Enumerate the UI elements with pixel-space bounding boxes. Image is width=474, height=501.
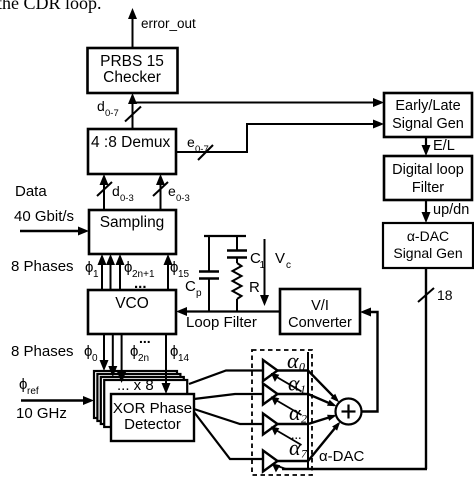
svg-text:up/dn: up/dn	[433, 202, 469, 218]
node alpha0 label	[287, 348, 305, 374]
svg-text:the CDR loop.: the CDR loop.	[0, 0, 102, 13]
wire DAC internal bus	[307, 352, 309, 469]
svg-text:0-7: 0-7	[105, 108, 119, 119]
wire summer to V/I Converter	[360, 308, 378, 412]
node phi0 label	[84, 343, 98, 364]
block PRBS 15 Checker	[88, 48, 178, 93]
wire phase a (VCO to Sampling)	[106, 254, 115, 290]
wire XOR out 4	[194, 412, 263, 459]
capacitor Cp	[199, 236, 219, 312]
node phi_ref label	[19, 376, 39, 397]
svg-text:0: 0	[92, 353, 98, 364]
svg-text:Filter: Filter	[412, 180, 444, 196]
svg-text:2n: 2n	[138, 353, 149, 364]
svg-text:α: α	[289, 435, 301, 460]
wire amp1 to summer	[277, 394, 337, 406]
node d0-7 label	[97, 98, 119, 119]
block Sampling	[89, 210, 176, 254]
block Early/Late Signal Gen	[384, 93, 472, 137]
wire amp0 to summer	[277, 371, 339, 403]
wire phase phi15 (VCO to Sampling)	[164, 254, 173, 290]
svg-text:Early/Late: Early/Late	[395, 98, 460, 114]
wire phase b (VCO to Sampling)	[116, 254, 125, 290]
block a-DAC Signal Gen	[383, 223, 473, 268]
svg-text:Converter: Converter	[288, 315, 352, 331]
amplifier alpha2	[263, 414, 302, 446]
block 4:8 Demux	[88, 129, 176, 174]
svg-text:Digital loop: Digital loop	[392, 162, 464, 178]
node phi1 label	[85, 259, 99, 280]
svg-text:α-DAC: α-DAC	[319, 448, 365, 465]
svg-text:E/L: E/L	[433, 138, 455, 154]
svg-text:α: α	[288, 371, 300, 396]
node e0-3 label	[168, 183, 190, 204]
wire Data input arrow	[20, 227, 89, 236]
wire e0-3 (Sampling to Demux)	[153, 174, 168, 210]
svg-text:8 Phases: 8 Phases	[11, 258, 74, 275]
svg-text:14: 14	[178, 353, 190, 364]
svg-text:8 Phases: 8 Phases	[11, 343, 74, 360]
svg-text:d: d	[112, 183, 120, 199]
node Vc label	[275, 250, 291, 271]
amplifier alpha1	[263, 384, 302, 416]
svg-text:0-3: 0-3	[120, 193, 134, 204]
wire loop filter main line (V/I to VCO)	[176, 307, 280, 316]
wire phi_ref input arrow	[21, 396, 94, 405]
svg-text:d: d	[97, 98, 105, 114]
block XOR stack back layers	[94, 371, 187, 427]
node phi2n label	[130, 330, 151, 364]
svg-text:7: 7	[301, 447, 308, 461]
svg-text:1: 1	[300, 382, 306, 396]
node phi14 label	[170, 343, 190, 364]
node d0-3 label	[112, 183, 134, 204]
svg-text:18: 18	[437, 287, 453, 303]
node alpha7 label	[289, 435, 308, 461]
svg-text:α-DAC: α-DAC	[407, 228, 449, 244]
block alpha-DAC dashed box	[252, 350, 312, 475]
wire e0-7 (Demux right to Early/Late)	[176, 120, 384, 161]
svg-text:4 :8 Demux: 4 :8 Demux	[91, 134, 171, 151]
amplifier alpha0	[263, 360, 302, 392]
wire up/dn (Digital loop Filter to a-DAC Signal Gen)	[422, 200, 431, 223]
wire 18-bit bus (a-DAC Signal Gen down and left to DAC)	[282, 268, 434, 469]
capacitor C1	[227, 236, 247, 263]
wire XOR out 3	[194, 409, 263, 424]
svg-text:α: α	[289, 400, 301, 425]
svg-text:e: e	[187, 134, 195, 150]
svg-text:0: 0	[299, 360, 305, 374]
wire XOR out 1	[189, 371, 263, 385]
wire phase phi0 (VCO to XOR stack)	[100, 334, 109, 371]
svg-text:c: c	[286, 260, 291, 271]
svg-text:Signal Gen: Signal Gen	[393, 245, 462, 261]
wire amp7 to summer	[277, 422, 340, 461]
svg-text:0-3: 0-3	[176, 193, 190, 204]
node phi2n+1 label	[124, 259, 155, 280]
amplifier alpha7	[263, 451, 286, 473]
svg-text:0-7: 0-7	[195, 144, 209, 155]
wire phase d (VCO to XOR stack)	[117, 334, 126, 383]
summer	[336, 399, 362, 425]
block Digital loop Filter	[384, 156, 472, 200]
wire Vc arrow	[260, 239, 269, 306]
svg-text:Loop Filter: Loop Filter	[186, 314, 257, 331]
wire E/L (Early/Late to Digital loop Filter)	[422, 137, 431, 156]
wire loop filter top rail	[204, 235, 246, 237]
svg-text:ref: ref	[27, 386, 39, 397]
svg-text:2: 2	[301, 412, 307, 426]
svg-text:40 Gbit/s: 40 Gbit/s	[14, 208, 74, 225]
wire d0-7 (Demux top to PRBS bottom)	[125, 93, 141, 129]
block XOR Phase Detector	[111, 394, 194, 441]
svg-text:Data: Data	[15, 183, 47, 200]
svg-text:Signal Gen: Signal Gen	[392, 116, 464, 132]
svg-text:VCO: VCO	[115, 295, 149, 312]
svg-text:PRBS 15: PRBS 15	[100, 53, 164, 70]
svg-text:10 GHz: 10 GHz	[16, 405, 67, 422]
svg-text:α: α	[287, 348, 299, 373]
svg-text:...: ...	[139, 330, 151, 346]
wire error_out (PRBS top to arrow)	[128, 8, 137, 48]
node Data input labels	[14, 183, 74, 225]
wire phase phi14 (VCO to XOR stack)	[162, 334, 171, 394]
svg-text:Sampling: Sampling	[100, 214, 165, 231]
block VCO	[88, 290, 176, 334]
svg-text:1: 1	[93, 269, 99, 280]
wire d0-3 (Sampling to Demux)	[97, 174, 112, 210]
node e0-7 label	[187, 134, 209, 155]
wire amp2 to summer	[277, 415, 337, 424]
svg-text:V/I: V/I	[311, 298, 329, 314]
svg-text:Checker: Checker	[103, 69, 161, 86]
svg-text:C: C	[185, 278, 196, 295]
node Cp label	[185, 278, 202, 299]
resistor R	[233, 263, 242, 312]
node phi15 label	[170, 259, 190, 280]
svg-text:V: V	[275, 250, 285, 267]
node C1 label	[250, 250, 266, 271]
svg-text:error_out: error_out	[141, 16, 196, 31]
wire phase phi1 (VCO to Sampling)	[98, 254, 107, 290]
wire XOR out 2	[194, 394, 263, 399]
node alpha2 label	[289, 400, 307, 426]
wire d to Early/Late Signal Gen	[133, 98, 385, 107]
block V/I Converter	[280, 289, 360, 334]
wire phase c (VCO to XOR stack)	[108, 334, 117, 377]
svg-text:Detector: Detector	[124, 416, 181, 433]
svg-text:p: p	[196, 288, 202, 299]
svg-text:e: e	[168, 183, 176, 199]
svg-text:XOR Phase: XOR Phase	[113, 400, 192, 417]
node alpha1 label	[288, 371, 306, 397]
svg-text:R: R	[249, 279, 260, 296]
